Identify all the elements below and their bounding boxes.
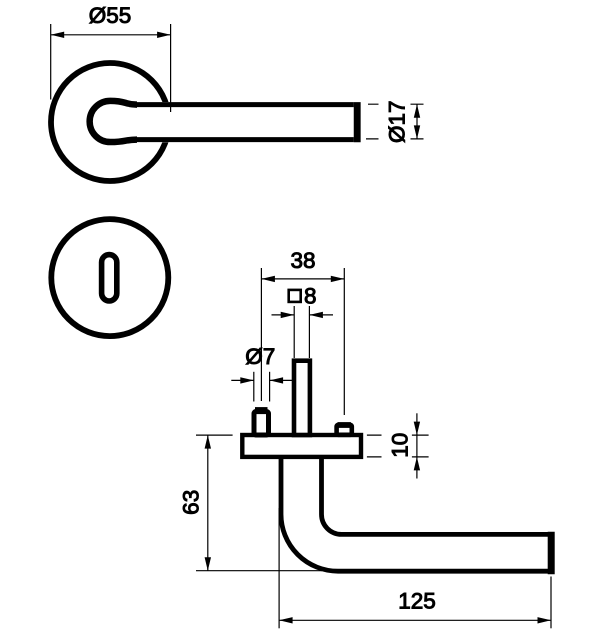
dimension square-8 symbol: [289, 290, 301, 302]
dimension 63 arrow top: [205, 435, 211, 449]
dimension Ø55 dimension line: [51, 34, 171, 36]
dimension 10 arrow bottom: [414, 457, 420, 471]
lever handle bar (front view) bottom edge: [129, 137, 354, 142]
dimension Ø7 dimension line left: [231, 379, 254, 381]
spindle square 8mm (side view): [294, 361, 310, 435]
dimension Ø55 arrow left: [51, 32, 64, 38]
svg-text:Ø17: Ø17: [385, 100, 410, 143]
dimension square-8 extension line left: [293, 306, 295, 358]
keyhole escutcheon circle: [51, 219, 168, 336]
dimension 10 extension line bottom: [367, 456, 429, 458]
lever profile (side view) outer edge: [281, 457, 549, 571]
dimension 63 dimension line: [207, 435, 209, 571]
dimension 63 extension line top: [196, 434, 233, 436]
dimension Ø55 extension line right: [170, 24, 172, 112]
dimension 63 extension line bottom: [196, 570, 322, 572]
lever handle bar (front view) top edge: [129, 102, 354, 107]
dimension Ø7 arrow right: [270, 377, 284, 383]
rose plate (side view): [242, 435, 361, 457]
left screw post outline: [254, 412, 269, 436]
dimension 10 dimension line: [416, 413, 418, 478]
dimension square-8 arrow left: [281, 312, 295, 318]
svg-text:38: 38: [290, 248, 315, 273]
dimension 125 dimension line: [279, 619, 551, 621]
dimension 125 arrow left: [279, 617, 293, 623]
dimension 38 dimension line: [261, 278, 344, 280]
rose (front view) circle Ø55: [51, 63, 169, 181]
lever neck U-curve: [90, 101, 137, 142]
svg-text:63: 63: [179, 490, 204, 515]
svg-text:125: 125: [398, 589, 436, 614]
dimension 125 arrow right: [538, 617, 552, 623]
dimension square-8 arrow right: [309, 312, 323, 318]
dimension 125 extension line left: [278, 508, 280, 628]
right screw post thick head: [338, 422, 351, 428]
dimension 38 arrow left: [261, 276, 275, 282]
right screw post outline: [337, 425, 352, 435]
dimension square-8 dimension line right: [309, 314, 333, 316]
dimension Ø17 dimension line: [416, 104, 418, 139]
lever profile end cap: [548, 532, 555, 575]
dimension Ø17 extension line top: [368, 103, 424, 105]
dimension 10 arrow top: [414, 422, 420, 436]
dimension 38 extension line left: [260, 268, 262, 401]
dimension square-8 dimension line left: [272, 314, 295, 316]
dimension Ø17 arrow top: [414, 104, 420, 118]
dimension 63 arrow bottom: [205, 557, 211, 571]
svg-text:Ø7: Ø7: [245, 344, 275, 369]
svg-text:10: 10: [388, 433, 413, 458]
dimension 125 extension line right: [550, 577, 552, 629]
dimension Ø7 extension line right: [269, 372, 271, 402]
svg-text:Ø55: Ø55: [89, 3, 132, 28]
lever handle bar (front view) white fill over rose: [125, 102, 354, 142]
lever handle bar end cap: [354, 102, 361, 142]
dimension 38 arrow right: [331, 276, 345, 282]
dimension Ø7 dimension line right: [270, 379, 293, 381]
dimension Ø55 arrow right: [157, 32, 171, 38]
dimension 38 extension line right: [343, 268, 345, 415]
dimension Ø7 extension line left: [253, 372, 255, 402]
left screw post thick head: [255, 407, 268, 414]
dimension square-8 extension line right: [308, 306, 310, 358]
dimension Ø17 extension line bottom: [366, 138, 424, 140]
dimension Ø17 arrow bottom: [414, 125, 420, 138]
dimension Ø55 extension line left: [50, 24, 52, 100]
keyhole slot: [102, 255, 117, 301]
dimension Ø7 arrow left: [240, 377, 254, 383]
dimension 10 extension line top: [367, 434, 429, 436]
svg-text:8: 8: [304, 284, 317, 309]
lever profile (side view) inner edge: [322, 457, 549, 534]
